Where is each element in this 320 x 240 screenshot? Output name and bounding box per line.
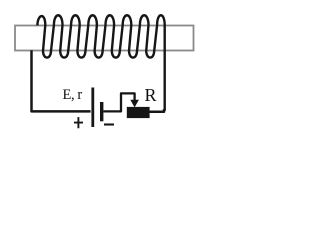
svg-text:E, r: E, r — [63, 87, 83, 103]
battery E,r : long positive plate — [91, 88, 94, 128]
resistor R (solid black box) — [127, 107, 150, 118]
coil L (8 turns over the core) — [37, 15, 164, 111]
core bar (iron core rectangle) — [15, 26, 194, 51]
label - (battery negative sign) — [104, 123, 114, 125]
wire: battery - terminal to step and slider arm — [103, 93, 134, 111]
wire: resistor to right vertical riser — [150, 109, 165, 112]
label + (battery positive sign) — [74, 117, 83, 128]
wire: left lead down from coil and bottom wire to battery + terminal — [32, 50, 91, 111]
svg-text:R: R — [145, 85, 157, 105]
battery E,r : short negative plate — [100, 102, 103, 121]
arrowhead of slider onto resistor — [130, 100, 139, 108]
